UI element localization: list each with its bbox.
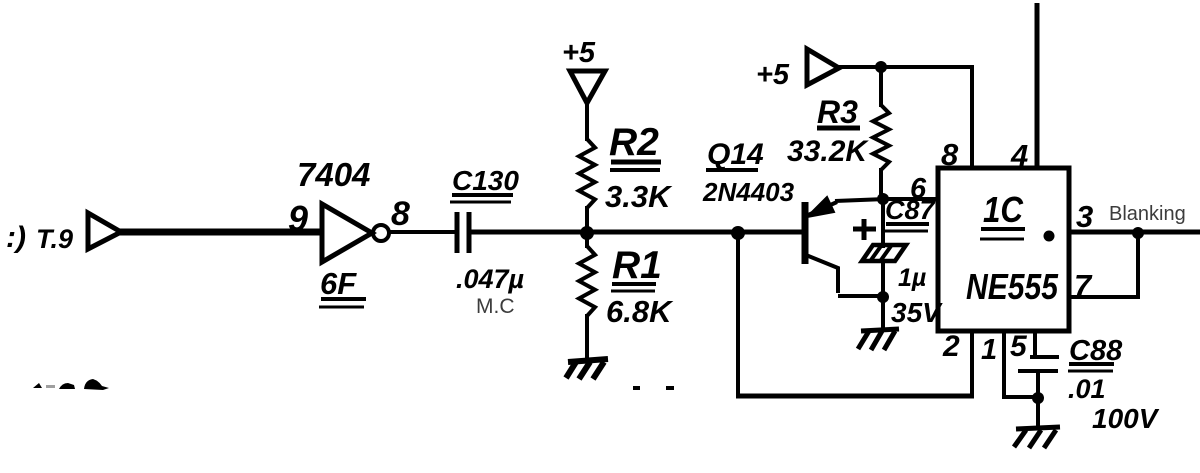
label Q14 [706, 138, 764, 171]
label C87 [885, 195, 937, 231]
wire C130 to node A [470, 230, 595, 235]
capacitor C130 [457, 212, 469, 253]
pin 2 wire [970, 331, 974, 398]
wire R2 to node A [585, 206, 589, 235]
capacitor C88 [1018, 357, 1059, 371]
ground (R1) [566, 359, 608, 379]
svg-text:6.8K: 6.8K [606, 294, 674, 329]
pin 5 wire [1033, 331, 1037, 358]
svg-text:+5: +5 [756, 59, 790, 91]
wire C88 to ground [1036, 371, 1040, 429]
wire supply to pin8 corner [837, 65, 972, 69]
wire node C to pin 6 [883, 197, 940, 201]
plus sign C87 [853, 219, 876, 240]
wire node C to C87 [881, 199, 885, 248]
svg-text:R2: R2 [609, 121, 659, 164]
wire Q14 emitter to node C [835, 199, 886, 201]
wire Q14 collector to node D [838, 294, 884, 298]
input arrow [88, 213, 121, 249]
svg-text:1: 1 [981, 334, 997, 366]
svg-text:33.2K: 33.2K [787, 135, 869, 168]
ground (C88) [1014, 427, 1060, 448]
svg-text:C130: C130 [452, 165, 519, 196]
svg-text:3: 3 [1076, 199, 1093, 234]
junction pin1/C88 [1032, 392, 1044, 404]
stray ink marks bottom left [33, 379, 109, 390]
node C junction [877, 193, 889, 205]
svg-text:.047µ: .047µ [456, 264, 525, 294]
svg-text:7: 7 [1074, 268, 1093, 303]
node A junction [580, 226, 594, 240]
resistor R3 [873, 105, 889, 170]
junction at R3 top [875, 61, 887, 73]
inverter U1 7404 [322, 204, 389, 262]
svg-text:8: 8 [391, 195, 410, 233]
node D junction [877, 291, 889, 303]
svg-text::): :) [6, 221, 26, 254]
svg-text:T.9: T.9 [36, 224, 73, 254]
svg-text:2: 2 [942, 330, 960, 363]
wire R1 to ground [585, 314, 589, 362]
wire C87 to ground [881, 259, 885, 331]
svg-text:7404: 7404 [297, 156, 370, 193]
+5 supply triangle (R3) [807, 49, 839, 85]
transistor Q14 [805, 197, 838, 293]
svg-text:C87: C87 [885, 195, 937, 225]
label R2 [609, 121, 661, 170]
svg-text:Q14: Q14 [707, 138, 764, 171]
label R3 [817, 94, 860, 130]
svg-text:+5: +5 [562, 37, 596, 69]
svg-text:.01: .01 [1068, 374, 1106, 404]
svg-text:6F: 6F [320, 266, 357, 301]
svg-text:35V: 35V [891, 297, 943, 328]
svg-text:R3: R3 [817, 94, 858, 130]
svg-text:8: 8 [941, 137, 959, 172]
feedback wire [736, 232, 974, 398]
svg-text:5: 5 [1010, 330, 1028, 363]
svg-text:M.C: M.C [476, 295, 515, 318]
svg-text:9: 9 [288, 198, 308, 239]
wire input to inverter [119, 229, 322, 236]
node label (C) T.9 [6, 221, 73, 254]
wire R3 top [879, 67, 883, 107]
wire inverter to C130 [389, 230, 456, 234]
pin 3 wire Blanking out [1069, 230, 1200, 235]
pin 4 wire [1035, 3, 1040, 170]
svg-text:1C: 1C [983, 189, 1024, 230]
resistor R2 [579, 139, 595, 208]
capacitor C87 [862, 245, 906, 261]
wire node A to node B [587, 230, 740, 235]
svg-text:4: 4 [1010, 138, 1028, 173]
wire node A to R1 [585, 233, 589, 248]
ground (C87) [858, 329, 899, 350]
svg-text:NE555: NE555 [966, 266, 1059, 307]
wire node B to Q14 base [738, 230, 805, 235]
pin 8 wire [970, 65, 974, 170]
gate label 6F [319, 266, 366, 307]
svg-text:Blanking: Blanking [1109, 203, 1186, 225]
wire R3 to node C [879, 168, 883, 201]
op IC U2 NE555 body [938, 168, 1069, 331]
wire supply to R2 [585, 101, 589, 141]
stray dots bottom middle [633, 386, 674, 390]
svg-text:100V: 100V [1092, 403, 1160, 434]
label C88 [1068, 335, 1123, 371]
label C130 [450, 165, 519, 202]
node B junction [731, 226, 745, 240]
resistor R1 [579, 246, 595, 316]
label 1C [980, 189, 1025, 239]
output junction [1132, 227, 1144, 239]
pin 1 wire [1004, 331, 1038, 397]
+5 supply triangle (R2) [570, 71, 605, 103]
pin 7 wire [1069, 233, 1138, 297]
label R1 [611, 244, 662, 291]
dot inside IC [1044, 231, 1055, 242]
svg-text:2N4403: 2N4403 [702, 177, 795, 207]
svg-text:1µ: 1µ [898, 264, 926, 292]
svg-text:3.3K: 3.3K [605, 179, 673, 214]
svg-text:R1: R1 [612, 244, 662, 287]
